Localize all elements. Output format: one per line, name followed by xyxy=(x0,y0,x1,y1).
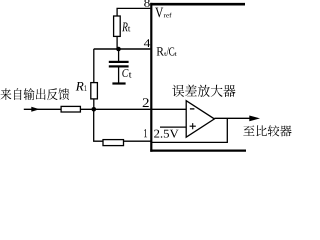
text label: 误差放大器 (error amplifier) xyxy=(172,85,235,97)
capacitor Ct top plate xyxy=(109,61,129,63)
resistor (compensation, unlabeled) xyxy=(103,140,124,146)
IC U1 left edge xyxy=(150,3,152,152)
text label: 至比较器 (to comparator) xyxy=(243,125,291,136)
wire: R1 bottom lead xyxy=(93,99,95,109)
wire: 2.5V reference to non-inverting input xyxy=(160,126,186,128)
pin 2 label xyxy=(143,98,149,107)
value label 2.5V xyxy=(154,130,179,138)
op-amp inverting input minus sign xyxy=(190,108,195,110)
text label: 来自输出反馈 (from output feedback) xyxy=(1,88,70,100)
wire: amplifier output xyxy=(214,117,252,119)
pin 8 label xyxy=(144,0,150,7)
ground bar for Ct xyxy=(112,82,125,84)
input arrowhead on feedback wire xyxy=(31,107,39,112)
wire: Rt bottom lead xyxy=(116,36,118,49)
value label R1 - R xyxy=(76,82,84,91)
net label Rt/Ct - slash xyxy=(167,47,170,55)
wire: R1 top branch xyxy=(93,49,95,83)
wire: pin 1 compensation line xyxy=(94,109,152,141)
net label Vref - V xyxy=(155,8,163,18)
value label Ct - C xyxy=(122,69,128,77)
wire: Ct top lead xyxy=(118,49,120,61)
junction node at Rt / Ct / pin 4 xyxy=(116,47,121,52)
net label Rt/Ct - C xyxy=(169,47,174,55)
IC U1 top edge xyxy=(150,3,245,6)
pin 1 label xyxy=(144,129,147,137)
resistor Rt xyxy=(114,16,121,36)
wire: Ct bottom lead xyxy=(118,68,120,83)
pin 4 label xyxy=(144,39,150,47)
wire: pin 8 line xyxy=(117,8,150,16)
resistor R1 xyxy=(91,83,98,99)
net label Rt/Ct - R xyxy=(157,47,164,55)
value label Rt - R xyxy=(122,23,128,32)
op-amp U2 error amplifier triangle xyxy=(186,101,214,138)
IC U1 bottom edge xyxy=(150,150,246,152)
junction node at R1 / feedback wire xyxy=(92,107,97,112)
wire: pin 4 node line xyxy=(94,48,151,50)
value label Ct - t subscript xyxy=(129,72,132,77)
wire: feedback input line to pin 2 and inverting input xyxy=(24,108,186,110)
net label Rt/Ct - t subscript 2 xyxy=(174,52,176,55)
resistor (feedback series, unlabeled) xyxy=(61,106,80,112)
capacitor Ct bottom plate xyxy=(109,65,129,67)
net label Vref - ref subscript xyxy=(164,13,172,18)
net label Rt/Ct - t subscript xyxy=(164,52,166,55)
op-amp non-inverting input plus sign xyxy=(190,123,196,129)
output arrowhead to comparator xyxy=(249,116,260,122)
wire: internal comp line from pin 1 to amp output xyxy=(151,118,227,142)
value label Rt - t subscript xyxy=(128,26,130,31)
value label R1 - 1 subscript xyxy=(84,85,87,91)
